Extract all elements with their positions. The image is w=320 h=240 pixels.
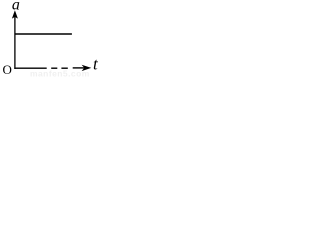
constant-a step line	[15, 33, 72, 35]
t-axis arrowhead	[82, 65, 92, 71]
svg-text:a: a	[12, 0, 20, 14]
y-axis arrowhead	[12, 10, 18, 18]
svg-text:O: O	[3, 62, 12, 77]
t-axis solid segment	[14, 67, 46, 69]
t-axis arrow shaft	[73, 67, 85, 69]
t-axis dash 1	[51, 67, 57, 69]
vertical axis a (y-axis line)	[14, 13, 16, 70]
background	[0, 0, 100, 77]
t-axis dash 2	[61, 67, 67, 69]
svg-text:manfen5.com: manfen5.com	[30, 69, 90, 78]
